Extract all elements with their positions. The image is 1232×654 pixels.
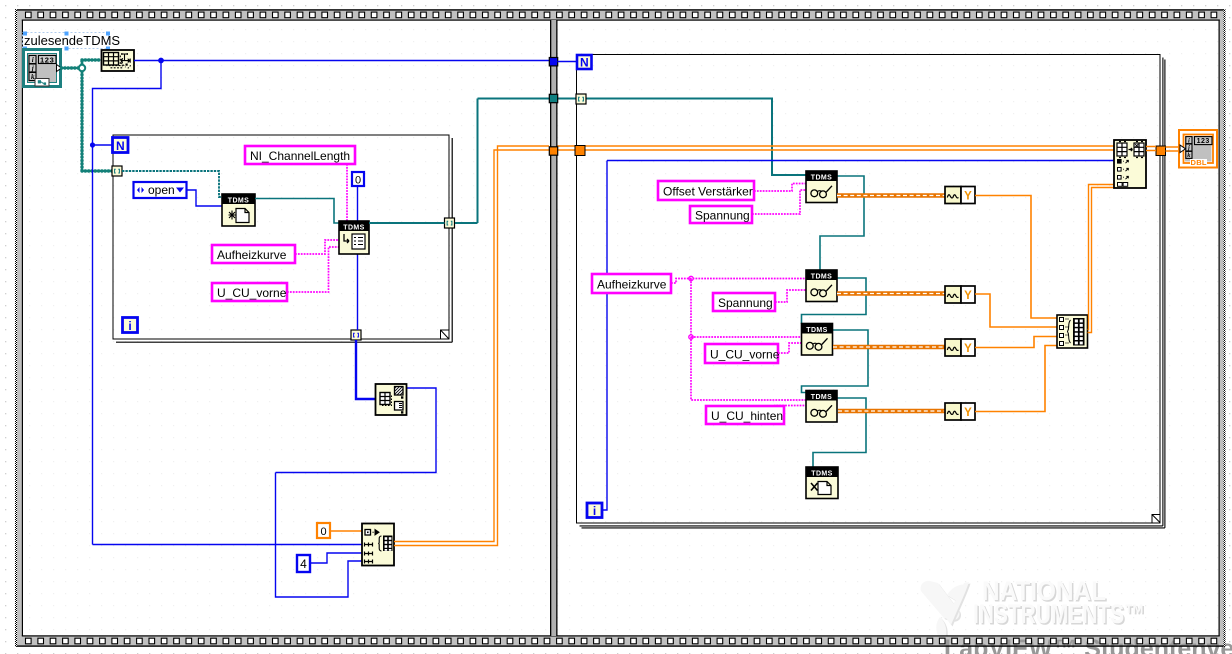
label zulesendeTDMS (selected): [23, 32, 121, 51]
wire: 2D DBL array pair inside frame2: [558, 146, 1115, 150]
for-loop 1 i terminal: [123, 318, 138, 334]
wire: waveform array read1 to Y1: [837, 193, 945, 198]
svg-text:0: 0: [355, 175, 361, 187]
tunnel: loop1 left auto-index: [112, 166, 122, 176]
svg-text:k: k: [31, 73, 35, 81]
svg-text:TDMS: TDMS: [806, 327, 827, 334]
node: build/index array (4 inputs): [362, 524, 394, 566]
node: build waveform Y4: [945, 403, 975, 420]
junction dot blue: [90, 58, 164, 148]
node: build waveform Y1: [945, 187, 975, 204]
svg-text:Y: Y: [964, 407, 972, 419]
wire: 2D pair build node to tunnel and indicator: [1146, 147, 1180, 152]
wire: U_CU_vorne to properties node: [287, 247, 339, 292]
wire: Y1 to interleave: [975, 196, 1057, 319]
numeric constant 0 (orange): [317, 523, 330, 538]
svg-text:U_CU_hinten: U_CU_hinten: [711, 409, 783, 423]
svg-text:i: i: [128, 319, 131, 333]
svg-text:zulesendeTDMS: zulesendeTDMS: [24, 33, 120, 48]
string constant Spannung (lower): [713, 293, 775, 311]
wire: Offset Verstaerker to TDMS read 1: [754, 184, 806, 192]
wire: waveform array read4 to Y4: [838, 409, 945, 414]
wire: Y3 to interleave: [975, 337, 1057, 348]
tunnel: loop1 bottom: [351, 330, 361, 340]
node: TDMS Open: [222, 194, 255, 226]
numeric constant 0 (blue): [352, 172, 364, 187]
string constant NI_ChannelLength: [245, 146, 355, 164]
svg-text:open: open: [148, 183, 175, 197]
svg-text:Y: Y: [964, 343, 972, 355]
wire: teal refnum array out of loop1 across frames: [369, 99, 806, 224]
node: array function (reshape): [102, 50, 135, 71]
wire: 2D DBL array pair to frame2: [394, 146, 549, 546]
wire: teal chain read4-close: [813, 398, 866, 467]
svg-text:Spannung: Spannung: [695, 209, 750, 223]
node: interleave 1D arrays: [1057, 315, 1088, 348]
wire: blue N count across divider: [558, 61, 577, 63]
pink junction beads: [689, 276, 693, 339]
wire: teal TDMS Open to TDMS properties: [255, 199, 339, 224]
wire: beaded branch down to for-loop 1 tunnel: [82, 68, 112, 171]
svg-text:Y: Y: [964, 290, 972, 302]
wire: blue branch down-left: [93, 61, 363, 545]
wire: beaded 3D-array from control to junction: [62, 66, 83, 69]
wire: teal chain read3-read4: [802, 330, 869, 393]
tunnel: loop1 right: [445, 218, 455, 228]
svg-text:i: i: [593, 504, 596, 518]
enum constant open: [134, 182, 187, 198]
node: build waveform Y2: [945, 286, 975, 303]
svg-text:4: 4: [300, 557, 307, 571]
for-loop 2 N terminal: [577, 55, 592, 70]
numeric constant 4 (blue): [297, 555, 310, 572]
svg-text:j: j: [1187, 145, 1190, 152]
wire: zigzag teal array into loop (to TDMS Open): [122, 171, 222, 197]
svg-text:INSTRUMENTS™: INSTRUMENTS™: [973, 599, 1145, 629]
svg-text:TDMS: TDMS: [811, 470, 832, 477]
tunnel: divider blue: [549, 58, 557, 66]
svg-text:TDMS: TDMS: [811, 273, 832, 280]
svg-text:NI_ChannelLength: NI_ChannelLength: [250, 149, 350, 163]
wire: blue 0 into properties node: [357, 186, 359, 330]
for-loop 1 N terminal: [113, 138, 129, 154]
wire: Aufheizkurve trunk to reads 2-4: [671, 279, 806, 401]
svg-text:TDMS: TDMS: [228, 197, 249, 204]
node: TDMS read 2: [806, 270, 837, 302]
string constant Offset Verstaerker: [658, 181, 754, 200]
wire: waveform array read3 to Y3: [833, 345, 945, 350]
wire: I32 array out of loop1 to index node: [356, 340, 376, 399]
wire: U_CU_vorne to TDMS read 3: [778, 343, 801, 353]
svg-text:U_CU_vorne: U_CU_vorne: [217, 286, 287, 300]
LabVIEW Studentenversion watermark text: [944, 635, 1232, 654]
node: TDMS read 1: [806, 171, 837, 203]
wire: enum to TDMS Open: [187, 190, 223, 206]
wire: blue inside loop2 to i and build node: [602, 161, 1114, 511]
string constant Spannung (upper): [690, 206, 752, 223]
wire: blue from constant 4: [310, 553, 362, 563]
wire: teal chain read2-read3: [802, 278, 867, 324]
tunnel: divider orange: [549, 147, 557, 155]
node: TDMS Close: [806, 467, 838, 499]
wire: 2D pair interleave to build-array node: [1088, 185, 1115, 333]
junction bead: [79, 65, 85, 71]
wire: orange 0 to build node: [330, 530, 362, 532]
wire: Y4 to interleave: [975, 346, 1057, 412]
string constant Aufheizkurve (loop2): [592, 274, 671, 293]
string constant U_CU_hinten: [706, 406, 784, 424]
tunnel: loop2 left auto-index teal: [576, 94, 586, 104]
svg-text:Aufheizkurve: Aufheizkurve: [217, 248, 287, 262]
svg-text:Aufheizkurve: Aufheizkurve: [597, 278, 667, 292]
wire: blue net around index node: [276, 388, 437, 597]
node: TDMS read 3: [802, 324, 833, 356]
wire: waveform array read2 to Y2: [837, 291, 945, 296]
svg-text:TDMS: TDMS: [343, 224, 364, 231]
svg-text:TDMS: TDMS: [811, 174, 832, 181]
wire: teal chain read1-read2: [820, 176, 864, 270]
svg-text:i: i: [32, 56, 34, 64]
svg-text:DBL: DBL: [1191, 158, 1207, 167]
string constant Aufheizkurve (loop1): [212, 245, 295, 263]
svg-text:123: 123: [40, 55, 54, 64]
tunnel: divider teal: [549, 94, 557, 102]
for-loop 2 border: [577, 55, 1165, 528]
node: TDMS read 4: [806, 391, 837, 423]
svg-text:Offset Verstärker: Offset Verstärker: [663, 185, 753, 199]
string constant U_CU_vorne (loop2): [705, 344, 780, 363]
wire: NI_ChannelLength to properties node: [346, 164, 348, 221]
svg-text:Spannung: Spannung: [718, 296, 773, 310]
wire: Aufheizkurve to properties node: [295, 240, 339, 254]
for-loop 2 i terminal: [587, 503, 602, 518]
wire: Spannung upper to TDMS read 1: [752, 190, 806, 214]
node: build array (2D): [1114, 140, 1146, 188]
National Instruments watermark logo: [921, 576, 1147, 638]
svg-text:0: 0: [320, 526, 326, 538]
tunnel: loop2 left orange: [575, 146, 585, 156]
for-loop 1 border: [113, 135, 452, 342]
svg-text:j: j: [31, 65, 34, 73]
svg-text:123: 123: [1197, 138, 1210, 145]
indicator: 3D array DBL: [1179, 130, 1217, 168]
svg-text:N: N: [116, 139, 125, 153]
node: index array: [376, 384, 407, 415]
flat sequence frame divider: [550, 20, 558, 636]
wire: I32 from reshape node to frame tunnel: [134, 60, 549, 62]
node: build waveform Y3: [945, 339, 975, 356]
svg-text:N: N: [580, 56, 589, 70]
node: TDMS channel properties: [339, 221, 369, 254]
svg-text:U_CU_vorne: U_CU_vorne: [710, 348, 780, 362]
svg-text:TDMS: TDMS: [811, 394, 832, 401]
string constant U_CU_vorne (loop1): [212, 283, 287, 301]
wire: Spannung lower to TDMS read 2: [775, 290, 806, 302]
wire: U_CU_hinten to TDMS read 4: [775, 406, 806, 408]
control terminal zulesendeTDMS (3D array I32): [24, 50, 62, 87]
svg-text:Y: Y: [964, 191, 972, 203]
svg-text:i: i: [1188, 137, 1190, 144]
wire: Y2 to interleave: [975, 294, 1057, 327]
tunnel: loop2 right orange: [1156, 146, 1166, 156]
wire: beaded branch up to reshape-array node: [82, 60, 101, 68]
